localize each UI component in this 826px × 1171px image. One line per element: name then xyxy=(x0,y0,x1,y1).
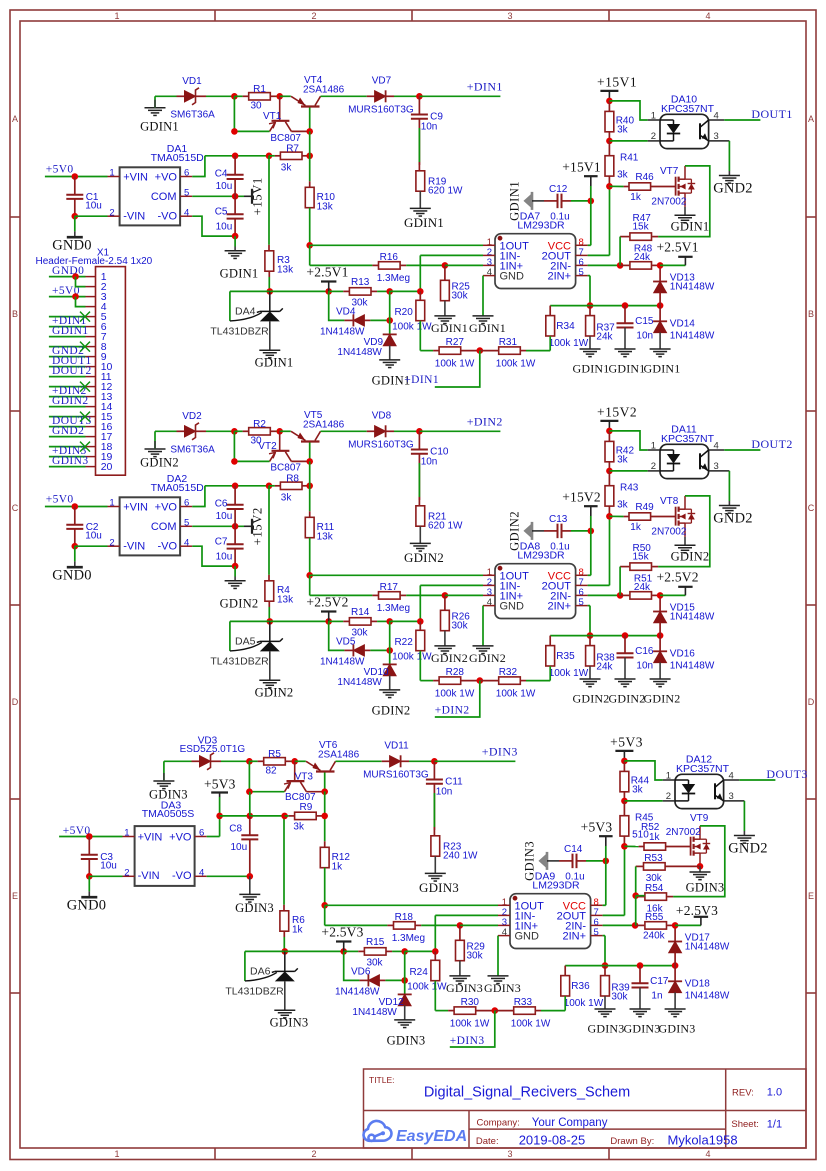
capacitor C2 10u xyxy=(74,507,76,525)
ground GDIN3 (input TVS) xyxy=(153,780,174,782)
svg-text:2N7002: 2N7002 xyxy=(666,827,701,838)
junction xyxy=(386,288,393,295)
svg-text:10n: 10n xyxy=(436,786,453,797)
svg-text:100k 1W: 100k 1W xyxy=(392,322,432,333)
svg-text:1: 1 xyxy=(114,11,119,21)
wire xyxy=(249,760,257,762)
svg-text:+2.5V1: +2.5V1 xyxy=(656,240,698,255)
svg-text:1k: 1k xyxy=(649,832,661,843)
wire xyxy=(49,296,86,298)
junction xyxy=(306,128,313,135)
svg-text:R17: R17 xyxy=(380,582,399,593)
ground GDIN2 (TL431) xyxy=(259,679,280,681)
resistor R41 3k xyxy=(608,141,610,156)
svg-text:R54: R54 xyxy=(645,883,664,894)
ground GDIN1 (input TVS) xyxy=(145,107,166,109)
wire xyxy=(268,277,270,291)
wire xyxy=(321,430,367,432)
svg-text:+2.5V3: +2.5V3 xyxy=(676,903,718,918)
diode VD15 1N4148W xyxy=(659,595,661,611)
power flag +5V3 xyxy=(219,793,221,798)
wire xyxy=(310,264,373,266)
junction xyxy=(606,468,613,475)
resistor R42 3k xyxy=(608,431,610,442)
ground GDIN1 (R37) xyxy=(589,336,591,349)
wire xyxy=(421,924,460,926)
wire xyxy=(163,761,165,781)
wire xyxy=(75,545,108,547)
resistor R37 24k xyxy=(589,306,591,316)
svg-text:-VO: -VO xyxy=(157,210,177,222)
wire xyxy=(49,416,86,418)
resistor R5 82 xyxy=(258,760,264,762)
resistor R26 30k xyxy=(444,595,446,610)
svg-text:GDIN3: GDIN3 xyxy=(588,1021,625,1035)
ground GDIN3 (VD18) xyxy=(674,992,676,1009)
svg-text:30k: 30k xyxy=(452,291,469,302)
voltage reference DA4 TL431DBZR xyxy=(229,291,231,321)
ground GDIN2 (C16) xyxy=(624,658,626,680)
ground GDIN1 (under C5) xyxy=(234,236,236,246)
capacitor C5 10u xyxy=(234,196,236,214)
wire xyxy=(309,245,311,265)
wire xyxy=(49,316,86,318)
resistor R54 16k xyxy=(667,896,673,898)
svg-text:R33: R33 xyxy=(514,997,533,1008)
ground GDIN3 (VD12) xyxy=(404,1005,406,1020)
svg-text:Your Company: Your Company xyxy=(532,1117,608,1129)
svg-text:100k 1W: 100k 1W xyxy=(511,1018,551,1029)
svg-text:2IN+: 2IN+ xyxy=(547,601,571,613)
svg-text:24k: 24k xyxy=(634,582,651,593)
capacitor C16 10n xyxy=(624,636,626,654)
power flag +15V2 (VCC) xyxy=(590,506,592,516)
junction xyxy=(276,93,283,100)
wire xyxy=(49,446,86,448)
svg-text:KPC357NT: KPC357NT xyxy=(661,433,715,445)
svg-text:R32: R32 xyxy=(499,667,518,678)
wire xyxy=(309,443,311,462)
resistor R3 13k xyxy=(268,245,270,251)
resistor R55 240k xyxy=(635,924,644,926)
wire xyxy=(235,485,269,487)
resistor R9 3k xyxy=(289,815,295,817)
resistor R4 13k xyxy=(268,575,270,581)
svg-text:GDIN2: GDIN2 xyxy=(644,691,681,705)
pin 11 xyxy=(86,376,96,378)
svg-text:620 1W: 620 1W xyxy=(428,185,463,196)
wire xyxy=(291,760,295,762)
wire 1OUT rail xyxy=(310,574,483,576)
svg-text:2IN+: 2IN+ xyxy=(547,271,571,283)
wire xyxy=(445,594,483,596)
wire xyxy=(409,760,434,762)
svg-text:A: A xyxy=(808,114,814,124)
wire xyxy=(75,215,108,217)
svg-text:TMA0505S: TMA0505S xyxy=(142,808,195,820)
svg-text:5: 5 xyxy=(184,188,189,199)
svg-text:4: 4 xyxy=(705,1149,710,1159)
svg-text:R53: R53 xyxy=(644,853,663,864)
svg-text:GDIN3: GDIN3 xyxy=(446,981,483,995)
wire xyxy=(419,255,421,291)
svg-text:VD14: VD14 xyxy=(670,319,695,330)
svg-text:1k: 1k xyxy=(332,861,344,872)
svg-text:BC807: BC807 xyxy=(270,463,301,474)
resistor R2 30 xyxy=(243,430,249,432)
resistor R52 1k xyxy=(624,845,638,847)
svg-text:4: 4 xyxy=(502,927,507,938)
wire xyxy=(392,950,405,952)
svg-text:GDIN2: GDIN2 xyxy=(508,511,522,551)
power flag +15V2 xyxy=(244,525,252,527)
svg-text:GND2: GND2 xyxy=(52,425,84,437)
svg-text:3k: 3k xyxy=(632,784,644,795)
svg-text:Mykola1958: Mykola1958 xyxy=(668,1132,738,1147)
svg-text:0.1u: 0.1u xyxy=(550,542,569,553)
svg-text:VT7: VT7 xyxy=(660,166,679,177)
svg-text:R16: R16 xyxy=(380,252,399,263)
wire xyxy=(309,131,311,181)
junction xyxy=(417,288,424,295)
svg-text:4: 4 xyxy=(487,597,492,608)
svg-text:Digital_Signal_Recivers_Schem: Digital_Signal_Recivers_Schem xyxy=(424,1085,630,1101)
wire -VO xyxy=(207,875,250,877)
wire xyxy=(249,791,284,793)
svg-text:1/1: 1/1 xyxy=(767,1119,782,1131)
junction xyxy=(72,273,79,280)
resistor R51 24k xyxy=(620,594,629,596)
resistor R43 3k xyxy=(608,471,610,486)
wire xyxy=(404,951,406,980)
wire +VO xyxy=(207,836,220,838)
svg-text:5: 5 xyxy=(594,927,599,938)
ground GDIN3 (R29) xyxy=(459,961,461,976)
resistor R1 30 xyxy=(243,95,249,97)
svg-text:-VIN: -VIN xyxy=(123,210,145,222)
svg-text:E: E xyxy=(12,891,18,901)
resistor R19 620 1W xyxy=(418,162,420,171)
wire xyxy=(565,965,675,967)
diode VD5 1N4148W xyxy=(344,649,353,651)
svg-text:2: 2 xyxy=(311,11,316,21)
svg-text:C13: C13 xyxy=(549,514,568,525)
junction xyxy=(386,647,393,654)
svg-text:DA5: DA5 xyxy=(235,636,256,648)
junction xyxy=(86,833,93,840)
wire xyxy=(433,784,435,830)
wire xyxy=(248,761,250,791)
svg-text:C14: C14 xyxy=(564,844,583,855)
svg-text:3: 3 xyxy=(507,11,512,21)
svg-text:GDIN3: GDIN3 xyxy=(387,1034,426,1048)
svg-text:30k: 30k xyxy=(611,991,628,1002)
svg-text:GDIN3: GDIN3 xyxy=(235,901,274,915)
svg-text:R55: R55 xyxy=(645,912,664,923)
svg-text:3: 3 xyxy=(507,1149,512,1159)
wire xyxy=(562,530,572,532)
power flag +2.5V3 xyxy=(675,924,701,926)
easyeda logo xyxy=(364,1121,392,1141)
wire xyxy=(434,981,436,1011)
wire xyxy=(635,896,637,926)
resistor R35 100k 1W xyxy=(549,636,551,646)
wire xyxy=(59,836,122,838)
ground GDIN2 (input TVS) xyxy=(145,448,166,450)
wire xyxy=(235,155,269,157)
power flag +5V3 (VCC) xyxy=(605,836,607,846)
svg-text:1: 1 xyxy=(114,1149,119,1159)
wire -VO xyxy=(192,216,235,236)
svg-text:VT2: VT2 xyxy=(258,441,277,452)
svg-text:GDIN2: GDIN2 xyxy=(404,550,444,565)
capacitor C6 10u xyxy=(234,486,236,505)
resistor R31 100k 1W xyxy=(480,350,499,352)
capacitor C17 1n xyxy=(639,966,641,984)
wire xyxy=(635,866,637,895)
junction xyxy=(588,528,595,535)
capacitor C10 10n xyxy=(418,431,420,449)
svg-text:R14: R14 xyxy=(351,607,370,618)
svg-text:3k: 3k xyxy=(617,170,629,181)
pin 18 xyxy=(86,446,96,448)
no-connect X xyxy=(80,442,90,452)
wire xyxy=(306,791,324,793)
junction xyxy=(246,788,253,795)
wire drain loop xyxy=(673,826,725,897)
svg-text:GDIN2: GDIN2 xyxy=(671,550,710,564)
power flag +15V1 (VCC) xyxy=(590,176,592,186)
svg-text:TL431DBZR: TL431DBZR xyxy=(210,656,269,668)
svg-text:+DIN3: +DIN3 xyxy=(482,744,518,758)
svg-text:R1: R1 xyxy=(253,84,266,95)
resistor R12 1k xyxy=(324,841,326,847)
svg-text:GDIN1: GDIN1 xyxy=(671,220,710,234)
capacitor C8 10u xyxy=(249,816,251,835)
wire xyxy=(577,860,587,862)
ground GDIN1 (C15) xyxy=(624,328,626,350)
svg-text:2: 2 xyxy=(311,1149,316,1159)
svg-text:+DIN3: +DIN3 xyxy=(450,1035,485,1047)
wire xyxy=(49,356,86,358)
svg-text:R49: R49 xyxy=(635,502,654,513)
svg-text:TMA0515D: TMA0515D xyxy=(151,482,205,494)
wire DOUT3 xyxy=(724,779,740,781)
svg-text:3k: 3k xyxy=(617,124,629,135)
diode VD1 SM6T36A xyxy=(177,95,185,97)
svg-text:SM6T36A: SM6T36A xyxy=(170,110,215,121)
svg-text:GDIN1: GDIN1 xyxy=(508,181,522,221)
power flag +15V2 xyxy=(608,421,610,431)
junction xyxy=(306,572,313,579)
junction xyxy=(588,198,595,205)
junction xyxy=(606,138,613,145)
svg-text:100k 1W: 100k 1W xyxy=(435,358,475,369)
svg-text:GDIN1: GDIN1 xyxy=(52,325,89,337)
pin 19 xyxy=(86,456,96,458)
svg-text:1k: 1k xyxy=(292,924,304,935)
svg-text:+15V2: +15V2 xyxy=(562,490,601,505)
wire xyxy=(49,436,86,438)
svg-text:100k 1W: 100k 1W xyxy=(549,338,589,349)
resistor R18 1.3Meg xyxy=(387,924,393,926)
resistor R23 240 1W xyxy=(433,827,435,836)
wire xyxy=(541,1010,565,1012)
wire xyxy=(285,950,344,952)
svg-text:GDIN1: GDIN1 xyxy=(469,321,506,335)
power flag +15V1 xyxy=(608,91,610,101)
svg-text:+5V3: +5V3 xyxy=(610,735,643,750)
svg-text:1N4148W: 1N4148W xyxy=(670,281,715,292)
resistor R47 15k xyxy=(652,236,658,238)
svg-text:240 1W: 240 1W xyxy=(443,850,478,861)
svg-text:+VIN: +VIN xyxy=(123,502,148,514)
svg-text:+2.5V2: +2.5V2 xyxy=(656,570,698,585)
junction xyxy=(232,193,239,200)
wire xyxy=(394,430,419,432)
svg-text:+VIN: +VIN xyxy=(138,832,163,844)
svg-text:+VO: +VO xyxy=(155,502,178,514)
wire xyxy=(49,366,86,368)
wire xyxy=(49,386,86,388)
wire xyxy=(269,485,275,487)
ground GDIN1 (VD9) xyxy=(389,345,391,360)
svg-text:R31: R31 xyxy=(499,337,518,348)
pin 15 xyxy=(86,416,96,418)
svg-text:+15V1: +15V1 xyxy=(251,177,265,215)
wire to +DIN3 xyxy=(434,760,515,762)
svg-text:+5V3: +5V3 xyxy=(204,776,236,791)
svg-text:KPC357NT: KPC357NT xyxy=(676,763,730,775)
svg-text:24k: 24k xyxy=(596,661,613,672)
svg-text:1N4148W: 1N4148W xyxy=(670,611,715,622)
resistor R27 100k 1W xyxy=(420,350,433,352)
svg-text:2IN+: 2IN+ xyxy=(562,931,586,943)
title block xyxy=(364,1069,807,1148)
diode VD11 MURS160T3G xyxy=(382,760,390,762)
junction xyxy=(231,428,238,435)
svg-text:C5: C5 xyxy=(215,206,228,217)
junction xyxy=(622,302,629,309)
svg-text:C6: C6 xyxy=(215,498,228,509)
wire xyxy=(370,319,389,321)
svg-text:D: D xyxy=(12,697,19,707)
svg-text:R24: R24 xyxy=(409,967,428,978)
svg-text:D: D xyxy=(808,697,815,707)
svg-text:13k: 13k xyxy=(317,201,334,212)
wire xyxy=(419,321,421,351)
wire xyxy=(418,454,420,500)
svg-text:2: 2 xyxy=(109,208,114,219)
ground GDIN1 (TL431) xyxy=(259,349,280,351)
svg-text:2N7002: 2N7002 xyxy=(651,197,686,208)
wire xyxy=(280,430,291,432)
svg-text:VT9: VT9 xyxy=(690,813,709,824)
wire xyxy=(562,200,572,202)
resistor R22 100k 1W xyxy=(419,621,421,630)
junction xyxy=(247,813,254,820)
svg-text:24k: 24k xyxy=(634,252,651,263)
svg-text:15k: 15k xyxy=(633,222,650,233)
wire R9 row xyxy=(220,815,250,817)
pin 8 xyxy=(86,346,96,348)
svg-text:13k: 13k xyxy=(277,264,294,275)
net port GDIN2 (arrow) xyxy=(524,524,532,538)
svg-text:COM: COM xyxy=(151,521,177,533)
wire xyxy=(154,96,156,108)
junction xyxy=(306,483,313,490)
svg-text:VT1: VT1 xyxy=(263,111,282,122)
svg-text:GND: GND xyxy=(515,931,540,943)
svg-text:1N4148W: 1N4148W xyxy=(685,991,730,1002)
ground GDIN3 (under R23) xyxy=(434,856,436,873)
wire xyxy=(291,130,309,132)
svg-text:1: 1 xyxy=(124,828,129,839)
svg-text:GDIN2: GDIN2 xyxy=(573,691,610,705)
resistor R46 1k xyxy=(609,185,623,187)
wire xyxy=(49,456,86,458)
svg-text:10u: 10u xyxy=(216,181,233,192)
wire xyxy=(526,350,550,352)
svg-text:10u: 10u xyxy=(100,861,117,872)
svg-text:30: 30 xyxy=(250,101,262,112)
svg-text:VD8: VD8 xyxy=(372,410,392,421)
junction xyxy=(672,922,679,929)
resistor R16 1.3Meg xyxy=(372,264,378,266)
svg-text:1.3Meg: 1.3Meg xyxy=(377,603,410,614)
svg-text:GDIN2: GDIN2 xyxy=(469,651,506,665)
junction xyxy=(657,592,664,599)
junction xyxy=(432,948,439,955)
wire xyxy=(309,461,311,511)
resistor R40 3k xyxy=(608,101,610,112)
resistor R30 100k 1W xyxy=(435,1010,448,1012)
svg-text:GDIN3: GDIN3 xyxy=(52,455,89,467)
pin 17 xyxy=(86,436,96,438)
svg-text:10u: 10u xyxy=(216,511,233,522)
junction xyxy=(325,618,332,625)
voltage reference DA5 TL431DBZR xyxy=(229,621,231,651)
wire xyxy=(154,431,156,449)
ground GDIN1 (R25) xyxy=(444,301,446,316)
svg-text:SM6T36A: SM6T36A xyxy=(170,445,215,456)
wire 2OUT xyxy=(588,584,610,586)
svg-text:10u: 10u xyxy=(85,201,102,212)
wire xyxy=(564,996,566,1011)
junction xyxy=(632,892,639,899)
wire to +DIN2 xyxy=(419,430,500,432)
resistor R50 15k xyxy=(652,566,658,568)
pin 1 xyxy=(86,276,96,278)
svg-text:R9: R9 xyxy=(300,802,313,813)
power flag +15V1 xyxy=(244,195,252,197)
wire xyxy=(49,396,86,398)
wire xyxy=(385,979,404,981)
svg-text:4: 4 xyxy=(184,538,189,549)
svg-text:+2.5V2: +2.5V2 xyxy=(306,595,348,610)
svg-text:0.1u: 0.1u xyxy=(565,872,584,883)
svg-text:1N4148W: 1N4148W xyxy=(337,677,382,688)
svg-text:B: B xyxy=(808,309,814,319)
wire xyxy=(155,430,177,432)
diode VD8 MURS160T3G xyxy=(367,430,375,432)
svg-text:10u: 10u xyxy=(85,531,102,542)
junction xyxy=(232,483,239,490)
pin 5 xyxy=(86,316,96,318)
junction xyxy=(657,302,664,309)
power flag +2.5V1 xyxy=(328,282,330,292)
wire xyxy=(406,594,445,596)
